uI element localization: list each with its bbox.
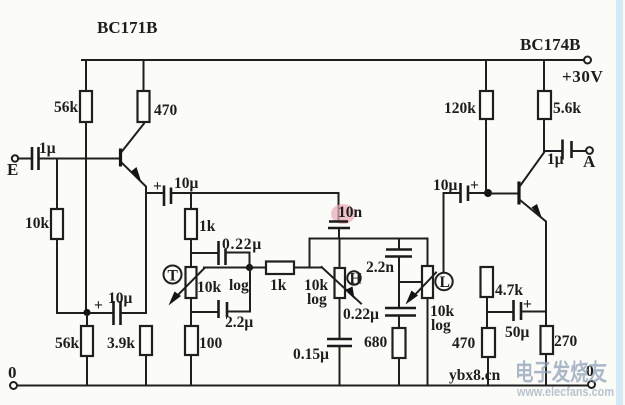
resistor R7 100 bbox=[185, 312, 223, 355]
svg-text:+: + bbox=[153, 178, 162, 195]
resistor R3 56k (lower) bbox=[55, 315, 93, 356]
resistor R8 1k (horizontal) bbox=[266, 262, 294, 295]
svg-text:1μ: 1μ bbox=[547, 151, 564, 168]
wire 5.6k drop from rail bbox=[543, 60, 545, 91]
wire emitter tap to 10u coupling cap bbox=[146, 192, 162, 194]
transistor Q2 BC174B bbox=[519, 153, 546, 327]
watermark elecfans bbox=[515, 359, 614, 399]
resistor R5 470 (collector) bbox=[138, 91, 178, 122]
svg-text:10μ: 10μ bbox=[174, 175, 199, 192]
svg-text:+30V: +30V bbox=[562, 67, 603, 86]
svg-text:1μ: 1μ bbox=[39, 140, 56, 157]
terminal 0 (left) bbox=[10, 382, 17, 389]
wire 10u to Q2 base node bbox=[469, 192, 486, 194]
wire 56k lower to ground rail bbox=[86, 356, 88, 385]
wire 2.2u to wiper node bbox=[228, 266, 250, 312]
wire 5.6k to collector bbox=[543, 119, 545, 152]
capacitor C12 50u bbox=[505, 296, 532, 341]
wire 56k bottom down through input node bbox=[85, 122, 87, 313]
resistor R13 470 (emitter Q2 side) bbox=[452, 312, 495, 357]
svg-text:10k: 10k bbox=[197, 279, 222, 296]
wire 120k drop from rail bbox=[485, 60, 487, 91]
capacitor C11 1u output bbox=[547, 140, 572, 169]
svg-text:3.9k: 3.9k bbox=[107, 335, 135, 352]
svg-text:1k: 1k bbox=[270, 277, 287, 294]
svg-text:0.22μ: 0.22μ bbox=[222, 236, 262, 253]
wire node to 50u cap bbox=[487, 311, 512, 313]
svg-text:120k: 120k bbox=[444, 100, 476, 117]
svg-text:+: + bbox=[523, 296, 532, 313]
resistor R11 5.6k bbox=[538, 91, 581, 119]
capacitor C5 2.2u bbox=[219, 300, 254, 331]
svg-text:0: 0 bbox=[8, 363, 17, 382]
wire collector tap to output cap bbox=[544, 150, 561, 152]
svg-text:2.2μ: 2.2μ bbox=[225, 314, 253, 331]
resistor R4 3.9k bbox=[107, 326, 152, 355]
capacitor C9 0.15u bbox=[293, 298, 352, 363]
terminal A output bbox=[586, 147, 593, 154]
wire 50u to emitter line bbox=[522, 311, 546, 313]
svg-text:+: + bbox=[470, 177, 479, 194]
wire L pot bottom to ground rail bbox=[427, 298, 429, 385]
terminal E input bbox=[12, 155, 18, 161]
wire base node to Q2 bbox=[491, 193, 517, 195]
resistor R14 270 bbox=[541, 326, 578, 354]
wire 10u cap to tone network top bbox=[172, 192, 339, 194]
svg-text:BC171B: BC171B bbox=[97, 18, 157, 37]
svg-text:56k: 56k bbox=[55, 335, 80, 352]
wire node to 10u cap bbox=[90, 312, 112, 314]
wire L wiper up to 10u cap bbox=[444, 193, 460, 272]
resistor R9 680 bbox=[364, 316, 406, 358]
wire tone bus bbox=[310, 238, 428, 240]
transistor Q1 BC171B bbox=[121, 122, 147, 313]
svg-text:1k: 1k bbox=[199, 218, 216, 235]
wire bottom ground rail bbox=[16, 385, 589, 387]
node Q2 base junction bbox=[484, 189, 492, 197]
svg-text:0.15μ: 0.15μ bbox=[293, 346, 329, 363]
wire bus drop to wiper wire bbox=[309, 239, 311, 268]
resistor R2 10k bbox=[25, 209, 63, 239]
wire 470 to ground rail bbox=[487, 357, 489, 385]
svg-text:T: T bbox=[168, 268, 179, 285]
wire 10k bottom to node bbox=[57, 239, 85, 313]
capacitor C6 10n bbox=[328, 193, 363, 239]
wire 680 to ground rail bbox=[398, 358, 400, 385]
capacitor C4 0.22u bbox=[219, 236, 262, 265]
svg-text:log: log bbox=[229, 277, 249, 294]
svg-text:2.2n: 2.2n bbox=[366, 259, 394, 276]
svg-text:56k: 56k bbox=[54, 99, 79, 116]
resistor R6 1k (vertical) bbox=[185, 209, 216, 239]
svg-text:680: 680 bbox=[364, 334, 388, 351]
potentiometer L 10k log bbox=[406, 239, 455, 335]
potentiometer T 10k log bbox=[164, 266, 250, 306]
svg-text:470: 470 bbox=[452, 335, 476, 352]
wire input cap to Q1 base bbox=[40, 158, 119, 160]
wire 100 to ground rail bbox=[190, 355, 192, 385]
wire T wiper to node bbox=[204, 267, 266, 269]
capacitor C7 2.2n bbox=[366, 239, 412, 277]
svg-text:0.22μ: 0.22μ bbox=[343, 306, 379, 323]
svg-text:270: 270 bbox=[554, 333, 578, 350]
wire 3.9k to ground rail bbox=[145, 355, 147, 385]
node junction (56k/10k/10u) bbox=[83, 309, 90, 316]
node wiper junction bbox=[246, 264, 253, 271]
wire 2.2n to 0.22u bbox=[398, 257, 400, 307]
svg-text:5.6k: 5.6k bbox=[553, 100, 581, 117]
wire 270 to ground rail bbox=[545, 354, 547, 385]
wire drop to 1k bbox=[190, 193, 192, 209]
capacitor C3 10u (coupling) bbox=[153, 175, 199, 206]
wire 0.15u to ground rail bbox=[339, 347, 341, 385]
wire 120k to base node bbox=[485, 119, 487, 192]
wire top supply rail bbox=[82, 59, 585, 61]
svg-text:10μ: 10μ bbox=[433, 177, 458, 194]
right edge blue strip bbox=[616, 0, 623, 405]
capacitor C1 1u input bbox=[32, 140, 56, 170]
svg-text:H: H bbox=[350, 271, 362, 288]
svg-text:BC174B: BC174B bbox=[520, 35, 580, 54]
svg-text:10n: 10n bbox=[338, 204, 363, 221]
svg-text:L: L bbox=[440, 274, 450, 291]
wire input to cap bbox=[18, 158, 30, 160]
wire 10k branch from input wire bbox=[56, 159, 58, 210]
wire 56k top drop from rail bbox=[85, 60, 87, 91]
wire cap to terminal A bbox=[572, 150, 586, 152]
capacitor C8 0.22u bbox=[343, 306, 416, 323]
wire tap to 0.22u bbox=[191, 252, 217, 254]
terminal 0 (right) bbox=[588, 381, 595, 388]
wire 4.7k to 50u node bbox=[486, 297, 488, 312]
wire bus to H pot top bbox=[339, 239, 341, 269]
svg-text:470: 470 bbox=[154, 102, 178, 119]
capacitor C2 10u (feedback) bbox=[94, 290, 133, 325]
svg-text:+: + bbox=[94, 297, 103, 314]
wire 1k to T pot bbox=[190, 239, 192, 267]
resistor R12 4.7k bbox=[481, 267, 524, 299]
wire stub to L pot bbox=[399, 281, 422, 283]
capacitor C10 10u bbox=[433, 177, 479, 203]
potentiometer H 10k log bbox=[304, 267, 362, 308]
wire T pot bottom to 2.2u tap bbox=[191, 298, 217, 312]
svg-text:10μ: 10μ bbox=[108, 290, 133, 307]
svg-text:电子发烧友: 电子发烧友 bbox=[515, 359, 607, 385]
svg-text:100: 100 bbox=[199, 335, 223, 352]
svg-text:log: log bbox=[307, 291, 327, 308]
svg-text:4.7k: 4.7k bbox=[495, 282, 523, 299]
wire 1k to H wiper bbox=[294, 267, 322, 269]
svg-text:log: log bbox=[431, 317, 451, 334]
resistor R10 120k bbox=[444, 91, 493, 119]
svg-text:A: A bbox=[583, 152, 596, 171]
svg-text:10k: 10k bbox=[25, 215, 50, 232]
svg-text:50μ: 50μ bbox=[505, 324, 530, 341]
svg-text:E: E bbox=[7, 160, 18, 179]
wire 10u cap to emitter line bbox=[122, 312, 146, 314]
wire 0.22u to wiper node bbox=[226, 253, 250, 265]
wire 470 drop from rail bbox=[143, 60, 145, 91]
svg-text:ybx8.cn: ybx8.cn bbox=[449, 367, 501, 384]
resistor R1 56k (upper) bbox=[54, 91, 92, 122]
svg-text:www.elecfans.com: www.elecfans.com bbox=[516, 385, 614, 399]
terminal +30V bbox=[584, 57, 591, 64]
